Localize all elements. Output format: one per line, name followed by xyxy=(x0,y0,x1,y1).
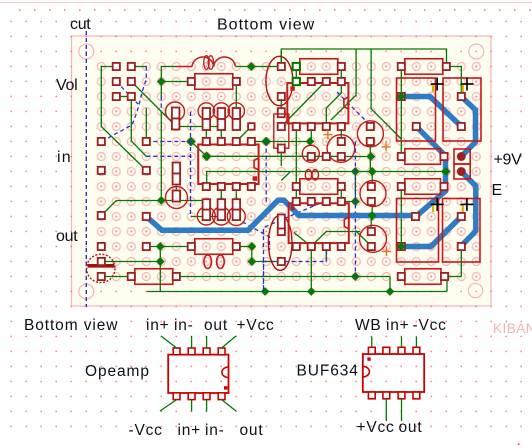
node C5 bend xyxy=(247,257,256,266)
node rail276 xyxy=(351,272,360,281)
wire jumper vol (dashed) xyxy=(101,67,146,142)
wire dipR2 inner xyxy=(295,232,312,247)
svg-text:KIBAN: KIBAN xyxy=(493,321,532,336)
vertical resistor VR4 xyxy=(197,207,215,225)
wire jumper dipR2 (dashed) xyxy=(264,201,327,292)
wire to C5 pad xyxy=(252,247,281,262)
buffer legend DIP8 xyxy=(363,354,424,392)
origin cross C4 xyxy=(462,204,464,212)
terminal block +9V xyxy=(454,149,470,164)
resistor R4 xyxy=(405,179,441,195)
pot connector pads (Vol) xyxy=(113,63,120,70)
wire T3 diag xyxy=(355,231,371,247)
node pin8b xyxy=(306,137,315,146)
wire rail y276 xyxy=(176,276,390,278)
transistor T1 xyxy=(166,187,188,209)
board outline xyxy=(72,36,492,306)
wire T3 top xyxy=(370,216,372,232)
origin cross C1 xyxy=(432,84,434,92)
svg-text:+9V: +9V xyxy=(494,152,523,169)
input pads xyxy=(98,138,105,145)
wire led to R7 xyxy=(101,276,131,278)
wire dipR2 pin drops xyxy=(310,247,312,292)
node led xyxy=(156,257,165,266)
wire jumper in+ (dashed) xyxy=(146,141,190,143)
wire rail276 drop xyxy=(389,277,391,292)
wire R2 to dipR1 pin1 xyxy=(295,67,297,82)
svg-text:in: in xyxy=(57,149,72,166)
wire gnd riser right xyxy=(460,250,462,277)
op-amp U2 (right channel DIP8) xyxy=(287,83,348,123)
node rail171 c xyxy=(442,167,451,176)
svg-text:-Vcc: -Vcc xyxy=(129,422,163,439)
pad aux pin xyxy=(248,123,255,130)
capacitor C2 (film) xyxy=(443,78,481,141)
wire vol bottom xyxy=(116,96,131,98)
resistor R7 xyxy=(135,269,173,285)
perfboard holes xyxy=(94,59,484,284)
wire E1 top riser xyxy=(280,51,282,66)
vertical resistor VR1 xyxy=(198,103,214,119)
transistor T5 xyxy=(327,135,355,163)
wire T4 feed xyxy=(369,142,371,172)
wire riser dipR1 pin2 xyxy=(310,127,312,142)
op-amp legend DIP8 xyxy=(168,355,228,393)
svg-text:cut: cut xyxy=(70,16,91,33)
wire jumper E2 (dashed) xyxy=(236,219,269,251)
wire jumper T4 (dashed) xyxy=(337,92,369,124)
wire P5 feed xyxy=(400,187,402,247)
svg-text:out: out xyxy=(240,422,264,439)
mounting hole BR xyxy=(468,283,482,297)
wire E1 pad link xyxy=(280,97,282,114)
origin cross C3 xyxy=(432,204,434,212)
wire jumper R1 (dashed) xyxy=(160,97,162,112)
wire R4 riser xyxy=(445,172,447,187)
node out2 xyxy=(156,242,165,251)
wire ground rail xyxy=(147,291,447,293)
wire R2 right net xyxy=(326,67,341,127)
node E1 in xyxy=(247,62,256,71)
node bend355 xyxy=(351,197,360,206)
capacitor pad between DIPs xyxy=(274,114,289,148)
origin cross orange 1 xyxy=(382,146,391,148)
svg-text:WB: WB xyxy=(355,317,382,334)
resistor R1 xyxy=(176,66,192,68)
capacitor E1 (electrolytic) xyxy=(266,56,293,105)
wire T2 bottom to blue xyxy=(371,202,373,217)
wire dip pin columns xyxy=(295,127,297,202)
wire blue P5 xyxy=(401,217,461,247)
wire out2 to R6 xyxy=(146,246,191,248)
resistor R6 xyxy=(195,239,233,255)
node blue junction 372 xyxy=(368,211,377,220)
transistor T4 xyxy=(357,121,383,147)
wire T5 to T4 col xyxy=(341,156,371,158)
wire R9 right link xyxy=(446,276,461,278)
wire T2 drop xyxy=(371,172,373,187)
wire vol to in- xyxy=(131,97,146,157)
resistor R2 xyxy=(300,59,338,75)
svg-text:Opeamp: Opeamp xyxy=(85,363,150,380)
wire R3 left drop xyxy=(400,67,402,157)
wire rail to C2 xyxy=(446,67,461,97)
svg-text:out: out xyxy=(399,419,423,436)
capacitor E2 (electrolytic) xyxy=(268,215,292,270)
wire dipL top leads xyxy=(205,127,207,142)
mounting hole BL xyxy=(79,284,94,299)
svg-text:in+: in+ xyxy=(146,317,170,334)
node blue junction P5 xyxy=(397,242,406,251)
svg-text:Bottom view: Bottom view xyxy=(217,17,315,34)
node gnd3 xyxy=(386,287,395,296)
wire rail drop 371 xyxy=(371,49,401,139)
op-amp U1 (left channel DIP8) xyxy=(198,145,258,185)
wire vol top right stub xyxy=(131,66,146,68)
wire led to out column xyxy=(101,261,160,263)
offset top dot row xyxy=(19,9,21,11)
wire jumper in- (dashed) xyxy=(146,155,190,157)
svg-text:in-: in- xyxy=(205,422,225,439)
transistor X1 xyxy=(302,145,319,162)
wire dipL pin8 to node xyxy=(251,141,311,143)
origin cross C2 xyxy=(462,84,464,92)
origin cross orange 2 xyxy=(382,251,391,253)
svg-text:in+: in+ xyxy=(178,422,202,439)
wire jumper v355 (dashed) xyxy=(354,142,356,277)
wire bottom right pad drop xyxy=(460,247,462,251)
svg-text:out: out xyxy=(204,317,228,334)
resistor R5 xyxy=(405,149,441,165)
wire dip L pin1 junction xyxy=(191,142,341,157)
node vol rail xyxy=(157,77,166,86)
node blue j1 xyxy=(368,212,377,221)
transistor T2 xyxy=(360,181,386,207)
svg-text:+Vcc: +Vcc xyxy=(357,419,395,436)
node dipL j2 xyxy=(202,152,212,162)
wire dipL bottom leads xyxy=(220,187,222,217)
wire out diag xyxy=(101,201,206,216)
svg-text:in+: in+ xyxy=(386,317,410,334)
wire blue P2 xyxy=(401,97,461,127)
wire T6 to VR2 xyxy=(176,126,221,128)
capacitor C3 (film) xyxy=(397,199,439,263)
wire rail diag stub xyxy=(281,172,290,181)
wire dipL diag lead xyxy=(236,127,251,142)
resistor R9 xyxy=(405,269,441,285)
node rail171 a xyxy=(351,167,360,176)
wire loops to E1 xyxy=(236,66,281,68)
wire long rail y171 xyxy=(207,172,447,187)
capacitor C1 (film) xyxy=(397,78,436,141)
svg-text:out: out xyxy=(56,228,78,245)
node R4 xyxy=(441,167,450,176)
svg-text:Vol: Vol xyxy=(56,77,77,94)
wire T1 circle net xyxy=(175,187,177,201)
svg-text:in-: in- xyxy=(174,317,194,334)
svg-text:-Vcc: -Vcc xyxy=(413,317,447,334)
mounting hole TR xyxy=(469,44,484,59)
wire out rail y216 feed xyxy=(159,247,161,292)
node R6 right xyxy=(247,242,256,251)
wire blue P4 xyxy=(461,172,476,246)
wire rail drop 356 xyxy=(331,49,356,120)
node dipL j1 xyxy=(186,137,196,147)
cut line (dashed) xyxy=(85,31,87,307)
LED D1 xyxy=(87,254,115,282)
wire top rail xyxy=(281,49,446,67)
op-amp legend leads xyxy=(161,336,177,348)
node gnd1 xyxy=(261,287,270,296)
wire jumper v266 (dashed) xyxy=(265,142,267,202)
wire vol-top net xyxy=(101,67,146,171)
origin cross orange 3 xyxy=(323,134,332,136)
svg-text:E: E xyxy=(492,182,502,199)
node blue junction 446 xyxy=(442,167,451,176)
node gnd2 xyxy=(307,287,316,296)
node rail171 b xyxy=(368,167,377,176)
svg-text:+Vcc: +Vcc xyxy=(237,317,275,334)
vertical resistor VR2 xyxy=(213,103,229,119)
vertical resistor VR5 xyxy=(212,207,230,225)
node 161 xyxy=(157,196,166,205)
wire blue P1 (out left channel) xyxy=(146,127,445,231)
node T4 xyxy=(367,152,376,161)
terminal block E xyxy=(454,164,470,179)
capacitor C4 (film) xyxy=(443,199,481,263)
wire in pad feed xyxy=(145,108,147,141)
resistor R3 xyxy=(405,59,443,75)
wire upper unit3 riser xyxy=(235,82,237,112)
wire e2 feed xyxy=(280,150,282,166)
mounting hole TL xyxy=(79,44,94,59)
buffer legend leads xyxy=(371,337,373,348)
transistor T3 xyxy=(360,225,387,252)
vertical resistor VR6 xyxy=(227,208,245,226)
top frame line xyxy=(0,2,532,3)
wire jumper v190 (dashed) xyxy=(190,112,192,216)
vertical resistor VR3 xyxy=(228,103,244,119)
wire diag E1 to dipR1 xyxy=(281,81,326,127)
wire R6 to C5 xyxy=(236,246,252,248)
wire 161 column xyxy=(160,111,162,201)
svg-text:Bottom view: Bottom view xyxy=(24,317,118,334)
node pin8 xyxy=(261,137,271,147)
svg-text:BUF634: BUF634 xyxy=(297,363,359,380)
resistor R8 xyxy=(300,179,338,195)
output pads xyxy=(98,212,105,219)
node blue junction C1 xyxy=(397,92,406,101)
wire R1 left column xyxy=(161,66,176,68)
transistor T6 xyxy=(166,102,185,121)
wire blue P3 xyxy=(461,97,475,157)
wire jumper vol2 (dashed) xyxy=(116,82,138,105)
buffer U3 (right channel DIP8 lower) xyxy=(289,203,349,243)
wire rail171 to dip pin xyxy=(341,172,355,202)
wire vol diag to T6 xyxy=(131,82,176,127)
